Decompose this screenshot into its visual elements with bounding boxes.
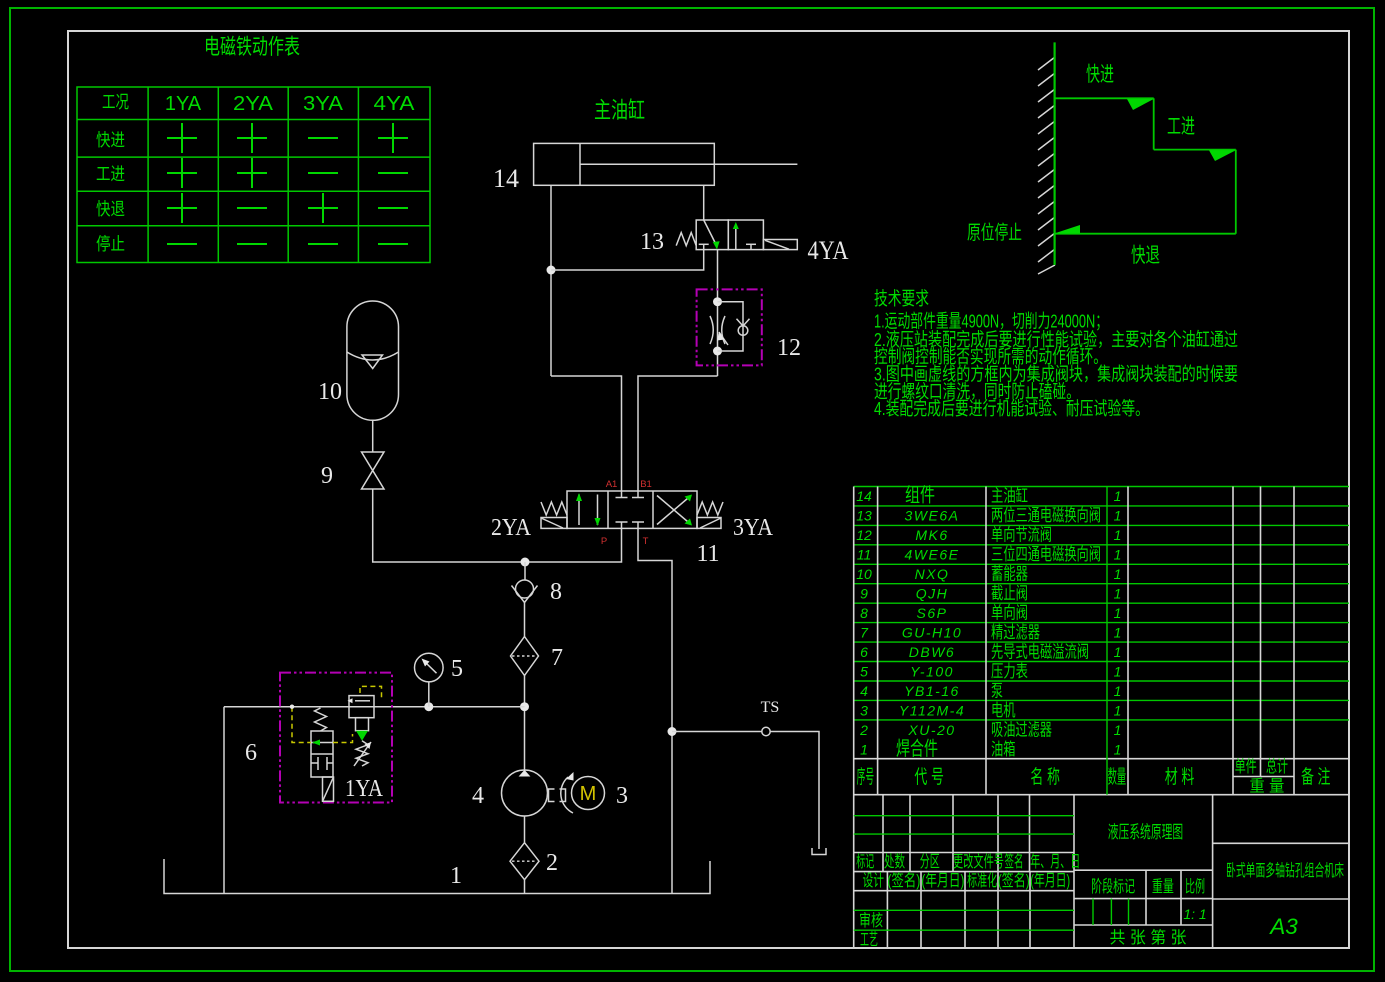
svg-text:蓄能器: 蓄能器 [991, 565, 1028, 584]
wire: valve 9 down and P-line horizontal [373, 489, 622, 562]
wire: filter 2 to tank bottom [524, 880, 526, 894]
svg-text:1: 1 [1114, 547, 1122, 563]
svg-text:1: 1: 1: 1 [1183, 906, 1206, 922]
svg-text:1: 1 [1114, 566, 1122, 582]
BOM header texts [857, 757, 1331, 796]
svg-text:快退: 快退 [1131, 244, 1160, 267]
svg-text:4: 4 [472, 783, 484, 809]
svg-text:序号: 序号 [857, 766, 875, 788]
wire: TS branch [672, 732, 819, 850]
TS drain tank symbol [812, 848, 826, 855]
svg-text:签名: 签名 [1005, 852, 1024, 871]
node: junction P-line / pump column [521, 558, 530, 567]
svg-text:重 量: 重 量 [1249, 777, 1284, 796]
pilot valve spring above [315, 708, 327, 731]
valve 11 left solenoid 2YA [541, 518, 567, 529]
svg-text:阶段标记: 阶段标记 [1091, 877, 1135, 896]
wire: cylinder right port down to valve 13 [703, 185, 705, 220]
check valve branch of block 12 [718, 302, 744, 351]
svg-text:(年月日): (年月日) [921, 871, 964, 890]
RELIEF VALVE BLOCK 6 [280, 673, 392, 803]
cylinder 14 body [534, 143, 798, 185]
svg-text:名 称: 名 称 [1030, 766, 1060, 788]
svg-text:5: 5 [860, 664, 868, 680]
svg-text:技术要求: 技术要求 [874, 288, 929, 309]
svg-text:(签名): (签名) [887, 871, 920, 890]
wire: check valve to filter 7 [524, 603, 526, 637]
svg-text:主油缸: 主油缸 [594, 97, 645, 123]
svg-text:11: 11 [696, 541, 719, 567]
svg-text:3: 3 [616, 783, 628, 809]
svg-text:快进: 快进 [1086, 63, 1114, 86]
title block white verticals/horizontals [854, 795, 1349, 948]
node: yellow tap on main line [290, 705, 294, 709]
svg-text:标准化: 标准化 [967, 871, 997, 890]
node: TS junction [668, 727, 677, 736]
svg-text:4: 4 [860, 683, 868, 699]
node: gauge junction [424, 702, 433, 711]
svg-text:3YA: 3YA [303, 93, 344, 115]
pressure gauge 5 [428, 682, 430, 707]
svg-text:组件: 组件 [905, 485, 935, 507]
svg-text:电磁铁动作表: 电磁铁动作表 [204, 34, 300, 59]
svg-text:QJH: QJH [916, 586, 949, 602]
suction filter 2 [510, 843, 539, 880]
svg-text:6: 6 [245, 740, 257, 766]
svg-text:单件: 单件 [1235, 757, 1257, 776]
valve 13 green arrows [713, 241, 720, 249]
wall hatching [1038, 57, 1055, 274]
node: block12 bottom junction [713, 347, 722, 356]
svg-text:NXQ: NXQ [915, 566, 950, 582]
svg-text:工况: 工况 [102, 92, 129, 112]
svg-text:1YA: 1YA [345, 776, 384, 802]
svg-text:DBW6: DBW6 [909, 644, 955, 660]
valve 11 green arrows [576, 493, 582, 501]
svg-text:1: 1 [450, 863, 462, 889]
svg-text:精过滤器: 精过滤器 [991, 623, 1040, 642]
svg-text:快进: 快进 [96, 130, 125, 150]
wire: accumulator to valve 9 [372, 420, 374, 452]
svg-text:处数: 处数 [884, 852, 905, 871]
svg-text:MK6: MK6 [915, 527, 948, 543]
svg-text:5: 5 [451, 656, 463, 682]
valve 11 right solenoid 3YA [697, 518, 721, 529]
svg-text:1: 1 [1114, 508, 1122, 524]
svg-text:压力表: 压力表 [991, 662, 1028, 681]
svg-text:GU-H10: GU-H10 [902, 625, 962, 641]
svg-text:1: 1 [1114, 683, 1122, 699]
svg-text:3: 3 [860, 703, 868, 719]
svg-text:1: 1 [1114, 742, 1122, 758]
svg-text:材 料: 材 料 [1165, 766, 1195, 788]
svg-text:(签名): (签名) [998, 871, 1030, 890]
svg-text:1: 1 [1114, 586, 1122, 602]
svg-text:S6P: S6P [917, 605, 948, 621]
svg-text:总计: 总计 [1266, 757, 1288, 776]
svg-text:6: 6 [860, 644, 868, 660]
throttle valve arcs [710, 316, 725, 344]
BOM grid white lines [854, 487, 1349, 949]
svg-text:3WE6A: 3WE6A [905, 508, 960, 524]
svg-text:工艺: 工艺 [860, 930, 878, 949]
svg-text:液压系统原理图: 液压系统原理图 [1108, 822, 1184, 842]
throttle adjust arrow [719, 332, 728, 345]
svg-text:原位停止: 原位停止 [967, 222, 1022, 244]
svg-text:共 张 第 张: 共 张 第 张 [1110, 928, 1187, 947]
BOM row texts [856, 488, 872, 758]
svg-text:8: 8 [860, 605, 868, 621]
tank 1 [164, 859, 710, 894]
title block green horizontals [854, 816, 1129, 931]
revision row labels [856, 852, 1080, 949]
svg-text:三位四通电磁换向阀: 三位四通电磁换向阀 [991, 545, 1101, 564]
wire: A1 riser [551, 376, 622, 491]
svg-text:截止阀: 截止阀 [991, 584, 1028, 603]
wire: valve13 left bottom port elbow to left line [551, 250, 704, 270]
BOM grid green horizontals [854, 487, 1349, 720]
svg-text:单向阀: 单向阀 [991, 604, 1028, 623]
wire: pump suction down [524, 816, 526, 843]
svg-text:2YA: 2YA [233, 93, 274, 115]
svg-text:数量: 数量 [1108, 766, 1126, 788]
svg-text:T: T [643, 536, 649, 547]
svg-text:代 号: 代 号 [914, 766, 944, 788]
relief valve spring [356, 741, 368, 766]
svg-text:电机: 电机 [991, 701, 1016, 720]
svg-text:审核: 审核 [859, 911, 883, 930]
node: junction main line / pump column [520, 702, 529, 711]
svg-text:更改文件号: 更改文件号 [953, 852, 1004, 871]
svg-text:A3: A3 [1268, 914, 1298, 939]
solenoid table plus/minus marks [167, 123, 408, 244]
svg-text:1: 1 [1114, 722, 1122, 738]
integrated block 12 dashed magenta box [697, 289, 762, 365]
svg-text:4YA: 4YA [374, 93, 416, 115]
svg-text:泵: 泵 [991, 682, 1003, 701]
svg-text:TS: TS [761, 699, 780, 716]
pilot valve body [311, 731, 333, 777]
svg-text:9: 9 [860, 586, 868, 602]
wire: T return line [638, 528, 672, 893]
wire: valve13 port down into block 12 [717, 250, 719, 376]
svg-text:设计: 设计 [863, 871, 885, 890]
svg-text:P: P [601, 536, 607, 547]
svg-text:Y-100: Y-100 [910, 664, 954, 680]
svg-text:YB1-16: YB1-16 [904, 683, 960, 699]
svg-text:主油缸: 主油缸 [991, 486, 1028, 506]
svg-text:停止: 停止 [96, 234, 125, 254]
svg-text:两位三通电磁换向阀: 两位三通电磁换向阀 [991, 506, 1101, 525]
svg-text:M: M [580, 783, 597, 805]
wire: B1 riser [638, 376, 718, 491]
shut-off valve 9 [362, 452, 385, 489]
svg-text:A1: A1 [606, 479, 618, 490]
svg-text:7: 7 [551, 645, 563, 671]
svg-text:2YA: 2YA [491, 515, 532, 541]
svg-text:(年月日): (年月日) [1030, 871, 1070, 890]
svg-text:10: 10 [856, 566, 872, 582]
check valve 8 [516, 580, 534, 598]
svg-text:10: 10 [318, 379, 342, 405]
valve 13 spring [676, 233, 696, 246]
svg-text:比例: 比例 [1185, 877, 1205, 896]
valve 11 left spring [541, 502, 567, 515]
relief valve main body [349, 696, 374, 718]
svg-text:工进: 工进 [96, 164, 125, 184]
svg-text:单向节流阀: 单向节流阀 [991, 526, 1052, 545]
relief valve stem [356, 718, 369, 731]
svg-text:12: 12 [856, 527, 872, 543]
svg-text:4WE6E: 4WE6E [905, 547, 960, 563]
svg-text:14: 14 [856, 488, 872, 504]
svg-text:Y112M-4: Y112M-4 [899, 703, 965, 719]
motion arrows [1127, 99, 1154, 110]
motion path fast-forward [1055, 98, 1236, 233]
relief valve green cone [356, 731, 368, 741]
valve 13 solenoid 4YA [763, 240, 797, 250]
svg-text:1YA: 1YA [165, 93, 202, 115]
TS port circle [762, 727, 770, 735]
svg-text:14: 14 [493, 164, 519, 193]
svg-text:吸油过滤器: 吸油过滤器 [991, 721, 1052, 740]
svg-text:卧式单面多轴钻孔组合机床: 卧式单面多轴钻孔组合机床 [1226, 861, 1344, 880]
motor rotation arrow [561, 777, 573, 813]
svg-text:4YA: 4YA [808, 236, 849, 265]
svg-text:年、月、日: 年、月、日 [1030, 852, 1080, 871]
svg-text:标记: 标记 [856, 852, 874, 871]
filter 7 [511, 637, 539, 676]
svg-text:XU-20: XU-20 [907, 722, 955, 738]
motor 3 [572, 777, 605, 810]
svg-text:9: 9 [321, 463, 333, 489]
pump 4 [502, 770, 548, 816]
svg-text:1: 1 [1114, 605, 1122, 621]
valve 13 body [696, 220, 763, 250]
svg-text:7: 7 [860, 625, 869, 641]
svg-text:2: 2 [546, 850, 558, 876]
wall line [1053, 42, 1055, 265]
TECHNICAL REQUIREMENTS TEXT [874, 288, 1238, 419]
node junction on left port line [547, 266, 556, 275]
wire: main pressure line [224, 706, 525, 708]
svg-text:1: 1 [1114, 488, 1122, 504]
svg-text:8: 8 [550, 579, 562, 605]
svg-text:13: 13 [640, 229, 664, 255]
svg-text:备 注: 备 注 [1301, 766, 1331, 788]
svg-text:1: 1 [1114, 625, 1122, 641]
valve 11 right spring [697, 502, 723, 515]
coupling pump-motor [549, 789, 566, 802]
svg-text:工进: 工进 [1167, 115, 1195, 138]
svg-text:快退: 快退 [96, 199, 125, 219]
svg-text:1: 1 [860, 742, 868, 758]
svg-text:1: 1 [1114, 664, 1122, 680]
svg-text:B1: B1 [640, 479, 652, 490]
solenoid action table grid [77, 87, 430, 263]
svg-text:4.装配完成后要进行机能试验、耐压试验等。: 4.装配完成后要进行机能试验、耐压试验等。 [874, 398, 1149, 419]
svg-text:1: 1 [1114, 703, 1122, 719]
yellow pilot lines [292, 686, 382, 742]
svg-text:12: 12 [777, 335, 801, 361]
wire: left drain to tank [223, 707, 225, 894]
svg-text:焊合件: 焊合件 [896, 738, 938, 760]
svg-text:2: 2 [859, 722, 868, 738]
svg-text:重量: 重量 [1152, 877, 1174, 896]
pilot solenoid 1YA [323, 777, 334, 801]
valve 11 body [567, 491, 697, 528]
accumulator 10 [347, 301, 399, 420]
svg-text:3YA: 3YA [733, 515, 774, 541]
svg-text:先导式电磁溢流阀: 先导式电磁溢流阀 [991, 643, 1089, 662]
svg-text:分区: 分区 [920, 852, 940, 871]
node: block12 top junction [713, 297, 722, 306]
wire: filter 7 to pump [524, 676, 526, 771]
wire: pump column top [524, 562, 526, 581]
svg-text:1: 1 [1114, 644, 1122, 660]
svg-text:11: 11 [857, 547, 872, 563]
wire: cylinder left port down [550, 185, 552, 376]
BOM name column divider green [1106, 487, 1108, 795]
svg-text:13: 13 [856, 508, 872, 524]
svg-text:1: 1 [1114, 527, 1122, 543]
svg-text:油箱: 油箱 [991, 740, 1016, 759]
